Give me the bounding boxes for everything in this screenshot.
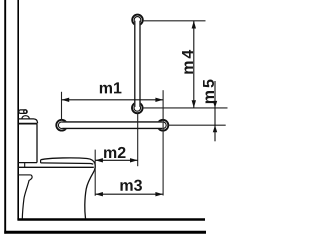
wall line [17, 0, 19, 220]
toilet seat rear edge [40, 160, 42, 163]
toilet tank body [36, 124, 38, 162]
extension line from bottom flange [143, 107, 228, 109]
extension line from top flange [143, 20, 206, 22]
vertical grab bar top flange [132, 15, 143, 26]
dimension m3 [95, 193, 163, 195]
toilet rear molding and base [22, 175, 32, 219]
svg-text:m2: m2 [103, 145, 126, 162]
toilet rear shelf [18, 174, 31, 176]
extension line from bar right flange [168, 124, 225, 126]
svg-text:m4: m4 [180, 48, 197, 75]
horizontal grab bar tube [63, 121, 163, 129]
toilet lid top [41, 158, 95, 164]
svg-text:m3: m3 [119, 178, 142, 195]
toilet bowl front [85, 164, 95, 219]
toilet flush lever [19, 110, 27, 114]
extension line vertical-bar axis [137, 113, 139, 166]
vertical grab bar tube [134, 21, 140, 107]
dimension m5 [214, 81, 216, 141]
vertical grab bar bottom flange [132, 103, 143, 114]
border frame left [4, 0, 6, 234]
extension line seat front [94, 150, 96, 196]
dimension m2 [95, 159, 138, 161]
extension line m1 left [61, 92, 63, 120]
toilet tank lid [19, 119, 38, 123]
extension line right (bar end) [162, 90, 164, 195]
border frame bottom [4, 231, 206, 234]
svg-text:m1: m1 [99, 80, 122, 97]
svg-text:m5: m5 [201, 77, 218, 104]
toilet bowl rim line [18, 166, 94, 168]
horizontal grab bar left flange [56, 120, 67, 131]
toilet pedestal step [24, 163, 26, 168]
floor line [17, 218, 205, 221]
horizontal grab bar right flange [158, 120, 169, 131]
toilet seat line [41, 163, 94, 164]
toilet tank lid knob (dome) [22, 116, 29, 119]
dimension m4 [193, 21, 195, 108]
dimension m1 [62, 99, 164, 101]
